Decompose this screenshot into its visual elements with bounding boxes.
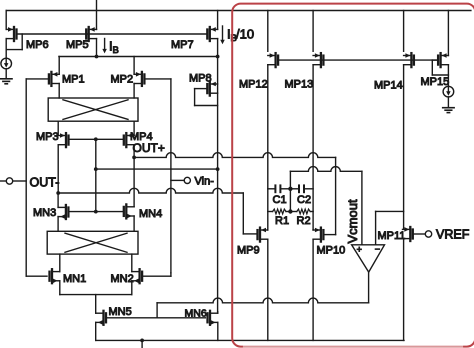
pmos MP6 (6, 27, 16, 41)
wire MP7 drain down (217, 39, 219, 57)
wire MP14 drain (403, 65, 405, 229)
label MP9 (237, 245, 260, 257)
wire VDD rail (6, 10, 471, 12)
svg-text:MP2: MP2 (111, 74, 134, 86)
label Vin- (195, 176, 215, 188)
wire MP11 drain down (403, 239, 405, 341)
wire gate line MP3-MP4 (69, 138, 124, 140)
pmos MP11 (403, 227, 413, 241)
wire OUT- stub2 (13, 180, 26, 182)
node gate tap dot (94, 137, 98, 141)
node OUT- dot (56, 191, 60, 195)
pmos MP15 (438, 53, 448, 67)
label MP14 (374, 80, 403, 92)
svg-text:R2: R2 (297, 215, 311, 227)
wire MN6 source down (217, 322, 219, 340)
label MP4 (130, 131, 153, 143)
wire MP10 drain down (312, 239, 314, 340)
wire MN3 drain up (57, 193, 59, 207)
wire MP15 source up (447, 11, 449, 56)
node MN gate dot (94, 210, 98, 214)
terminal OUT- circle (6, 178, 12, 184)
wire MP2 drain down (133, 84, 135, 99)
wire MP1 drain down (58, 84, 60, 99)
wire OUT- to MP9 gate (58, 188, 257, 234)
label MP11 (378, 230, 406, 242)
resistor R2 (290, 209, 313, 214)
wire MN2 source down (131, 281, 133, 295)
pmos MP5 (86, 27, 96, 41)
wire CMFB (157, 298, 369, 303)
wire MP8 gate box (195, 89, 218, 106)
wire MP10 gate (323, 157, 335, 234)
red highlight box (232, 4, 474, 347)
label MP3 (36, 131, 59, 143)
wire MP8 column (217, 57, 219, 312)
wire Vin to MN2 gate corner (170, 273, 172, 276)
label MN5 (109, 306, 132, 318)
svg-text:MN1: MN1 (63, 273, 86, 285)
svg-text:R1: R1 (275, 215, 289, 227)
label MN6 (185, 308, 207, 320)
pmos MP8 (207, 82, 217, 96)
wire Vcm sense (290, 167, 362, 172)
wire to ground (5, 69, 7, 79)
node MP7-MP8 dot (216, 55, 220, 59)
nmos MN4 (124, 204, 134, 218)
terminal VREF circle (425, 231, 431, 237)
wire MN2 drain up (131, 254, 133, 272)
box XA1 (48, 98, 138, 121)
node tail dot (95, 55, 99, 59)
wire MP9 drain down (267, 239, 269, 340)
wire MP7 source up (217, 11, 219, 30)
svg-text:MP1: MP1 (62, 74, 85, 86)
svg-text:Vin-: Vin- (195, 176, 215, 188)
wire MP2 gate right (144, 78, 171, 80)
svg-text:MP10: MP10 (317, 245, 346, 257)
wire CR riser (289, 189, 291, 212)
svg-text:MP15: MP15 (421, 76, 450, 88)
label MN3 (33, 207, 56, 219)
terminal Vin- circle (184, 177, 190, 183)
wire gate line MN5-MN6 (106, 317, 205, 319)
wire cascode tap vertical (95, 139, 97, 211)
wire gate line mirrors (278, 59, 437, 61)
box XA2 (47, 231, 138, 254)
svg-text:MP13: MP13 (285, 79, 314, 91)
wire Vin vertical (170, 79, 172, 273)
wire MN3 source down (57, 217, 59, 232)
nmos MN2 (132, 269, 142, 283)
wire MP4 source up (133, 121, 135, 135)
wire OUT+ to MP10 gate (134, 153, 336, 158)
wire MN1 drain up (59, 254, 61, 272)
wire cascode bias (96, 168, 218, 170)
label MN4 (139, 208, 162, 220)
node rail dot (140, 339, 144, 343)
current source I1 (1, 58, 12, 69)
wire MP13 drain (312, 65, 314, 230)
wire gate line MN3-MN4 (68, 211, 123, 213)
wire MP2 source up (133, 57, 135, 75)
wire tail rail (59, 56, 218, 58)
pmos MP13 (313, 53, 323, 67)
svg-text:MP11: MP11 (378, 230, 406, 242)
label MP1 (62, 74, 85, 86)
wire ground rail (96, 339, 404, 341)
wire MP3 source up (57, 121, 59, 135)
label VREF (436, 228, 470, 242)
wire MP5 source up (96, 0, 98, 29)
wire MP13 source (312, 11, 314, 52)
wire MP4 drain down (133, 145, 135, 158)
current arrow IB/10 (220, 26, 225, 44)
wire MN4 drain up (133, 157, 135, 206)
wire MP6 drain down (5, 39, 7, 59)
label R1 (275, 215, 289, 227)
current source I2 (443, 86, 454, 97)
wire gate line MP6-MP5-MP7 (17, 33, 208, 35)
label MP15 (421, 76, 450, 88)
svg-text:MN5: MN5 (109, 306, 132, 318)
svg-text:MN3: MN3 (33, 207, 56, 219)
svg-text:MP7: MP7 (171, 39, 194, 51)
wire MP6 gate box right (21, 34, 23, 50)
svg-text:B: B (113, 45, 119, 56)
label C1 (273, 194, 287, 206)
label MP8 (189, 73, 212, 85)
node wireC right dot (216, 167, 220, 171)
label IB/10 (227, 27, 254, 45)
wire rail stub down (141, 340, 143, 348)
pmos MP4 (124, 133, 134, 147)
wire MP1 gate (26, 78, 49, 80)
svg-text:MP3: MP3 (36, 131, 59, 143)
svg-text:MN4: MN4 (139, 208, 162, 220)
label MP7 (171, 39, 194, 51)
wire opamp out (368, 272, 370, 303)
wire OUT- gate vertical (25, 79, 27, 276)
svg-text:−: − (375, 244, 380, 254)
wire MP12 drain (267, 65, 269, 230)
svg-text:/10: /10 (236, 27, 254, 42)
label C2 (297, 194, 311, 206)
wire CMFB riser (156, 303, 158, 318)
capacitor C1 (268, 185, 291, 192)
pmos MP7 (207, 27, 217, 41)
svg-text:C2: C2 (297, 194, 311, 206)
label OUT- (30, 176, 60, 190)
svg-text:Vcmout: Vcmout (345, 199, 360, 243)
wire Vin stub (171, 179, 184, 181)
wire MP1 source up (58, 57, 60, 75)
nmos MN1 (50, 269, 60, 283)
node R mid dot (288, 209, 292, 213)
wire Vcm sense riser (289, 171, 291, 189)
wire MP6 gate box bottom (6, 49, 22, 51)
node C mid dot (288, 187, 292, 191)
pmos MP12 (268, 53, 278, 67)
wire MP15 drain down (447, 65, 449, 87)
label Vcmout (345, 199, 360, 243)
wire MP6 source from rail (5, 11, 7, 30)
wire MN1 source down (59, 281, 61, 295)
wire NMOS tail (60, 294, 132, 296)
op-amp U1 (352, 244, 385, 272)
svg-text:MN2: MN2 (111, 273, 134, 285)
wire MP15 gate box (432, 60, 448, 75)
svg-text:MP12: MP12 (239, 79, 268, 91)
label MP5 (66, 39, 89, 51)
wire MP10 source up (312, 229, 314, 231)
terminal OUT- stub (0, 180, 6, 182)
wire MN2 gate right (142, 275, 171, 277)
wire MP3 drain down (57, 145, 59, 193)
wire MN4 source down (133, 216, 135, 231)
wire MN1 gate (26, 275, 47, 277)
svg-text:MP4: MP4 (130, 131, 153, 143)
svg-text:MP6: MP6 (26, 39, 49, 51)
label MP6 (26, 39, 49, 51)
svg-text:VREF: VREF (436, 228, 470, 242)
label MP2 (111, 74, 134, 86)
svg-text:+: + (357, 245, 362, 255)
label IB (109, 39, 119, 57)
wire MN5 drain up (95, 295, 97, 314)
wire to opamp plus (361, 171, 363, 244)
wire MN6 drain up (217, 312, 219, 313)
pmos MP9 (258, 228, 268, 242)
svg-text:C1: C1 (273, 194, 287, 206)
svg-text:MP14: MP14 (374, 80, 403, 92)
current arrow IB (102, 39, 107, 54)
ground GND2 (443, 108, 454, 113)
svg-text:MN6: MN6 (185, 308, 207, 320)
label MP10 (317, 245, 346, 257)
nmos MN3 (58, 205, 68, 219)
pmos MP10 (313, 228, 323, 242)
pmos MP1 (49, 72, 59, 86)
nmos MN6 (208, 311, 218, 325)
label MN1 (63, 273, 86, 285)
nmos MN5 (96, 311, 106, 325)
wire MP14 source (403, 11, 405, 52)
wire opamp minus (376, 211, 404, 244)
label R2 (297, 215, 311, 227)
svg-text:MP8: MP8 (189, 73, 212, 85)
label MP12 (239, 79, 268, 91)
wire MP9 source up (267, 229, 269, 231)
wire I2 to ground (447, 97, 449, 108)
svg-text:OUT-: OUT- (30, 176, 60, 190)
node OUT+ dot (132, 156, 136, 160)
capacitor C2 (290, 185, 313, 192)
svg-text:MP9: MP9 (237, 245, 260, 257)
wire MN5 source down (95, 322, 97, 340)
resistor R1 (268, 209, 291, 214)
pmos MP2 (134, 72, 144, 86)
svg-text:OUT+: OUT+ (133, 141, 165, 155)
wire MP11 gate (413, 233, 426, 235)
ground GND1 (1, 79, 13, 84)
pmos MP14 (404, 53, 414, 67)
wire MP5 drain down (96, 39, 98, 57)
wire MP12 source (267, 11, 269, 52)
svg-text:MP5: MP5 (66, 39, 89, 51)
pmos MP3 (58, 133, 68, 147)
label MP13 (285, 79, 314, 91)
label MN2 (111, 273, 134, 285)
node wireC dot (94, 167, 98, 171)
label OUT+ (133, 141, 165, 155)
